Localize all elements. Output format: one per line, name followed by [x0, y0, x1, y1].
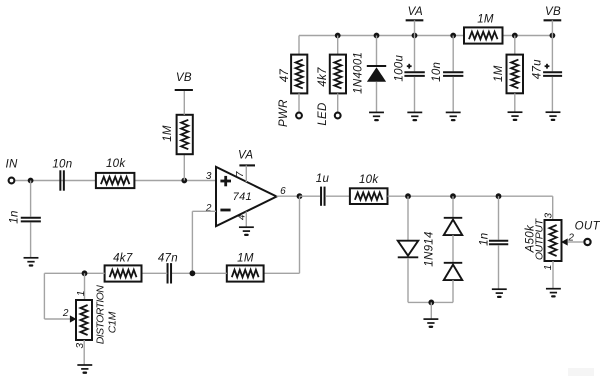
- svg-text:6: 6: [280, 186, 286, 197]
- svg-text:DISTORTION: DISTORTION: [95, 285, 107, 344]
- svg-text:1n: 1n: [479, 232, 491, 245]
- svg-text:1M: 1M: [493, 65, 505, 82]
- svg-text:100u: 100u: [393, 55, 405, 82]
- svg-text:1u: 1u: [316, 173, 330, 185]
- svg-text:1: 1: [76, 290, 87, 296]
- svg-text:VB: VB: [176, 72, 192, 84]
- svg-text:2: 2: [205, 203, 212, 214]
- svg-text:3: 3: [206, 171, 212, 182]
- svg-text:10k: 10k: [359, 174, 379, 186]
- svg-text:1N914: 1N914: [423, 231, 435, 266]
- svg-text:PWR: PWR: [278, 99, 290, 127]
- svg-text:OUT: OUT: [575, 220, 600, 232]
- svg-text:VB: VB: [545, 6, 561, 18]
- svg-text:10k: 10k: [106, 158, 126, 170]
- svg-text:3: 3: [543, 213, 554, 219]
- svg-text:47u: 47u: [531, 59, 543, 79]
- svg-text:IN: IN: [6, 158, 18, 170]
- svg-text:1M: 1M: [162, 125, 174, 142]
- svg-text:47: 47: [279, 69, 291, 83]
- svg-text:10n: 10n: [431, 62, 443, 82]
- svg-text:1N4001: 1N4001: [353, 52, 365, 94]
- svg-text:10n: 10n: [52, 158, 72, 170]
- svg-text:VA: VA: [408, 6, 423, 18]
- svg-text:3: 3: [75, 342, 86, 348]
- svg-text:2: 2: [62, 308, 69, 319]
- svg-text:741: 741: [233, 191, 252, 203]
- svg-text:C1M: C1M: [106, 311, 118, 333]
- svg-text:OUTPUT: OUTPUT: [533, 217, 545, 260]
- svg-text:LED: LED: [317, 102, 329, 125]
- svg-text:47n: 47n: [158, 252, 178, 264]
- svg-text:1: 1: [543, 264, 554, 270]
- svg-text:1M: 1M: [477, 13, 494, 25]
- svg-text:4k7: 4k7: [317, 67, 329, 87]
- svg-text:VA: VA: [238, 150, 253, 162]
- svg-text:1M: 1M: [237, 252, 254, 264]
- svg-text:7: 7: [235, 171, 246, 177]
- svg-text:4k7: 4k7: [113, 252, 133, 264]
- svg-text:1n: 1n: [9, 210, 21, 223]
